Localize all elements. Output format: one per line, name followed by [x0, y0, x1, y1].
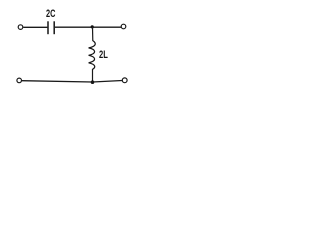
wire (node B to bottom-right terminal) — [93, 81, 123, 83]
inductor 2L coil — [89, 41, 96, 70]
node A junction dot (top) — [91, 25, 94, 28]
svg-text:2C: 2C — [46, 8, 56, 20]
capacitor 2C left plate — [47, 21, 49, 34]
svg-text:2L: 2L — [99, 49, 108, 61]
wire (bottom-left terminal to node B) — [22, 81, 93, 82]
terminal T3 (bottom-left port) — [17, 78, 22, 83]
wire (node A down to inductor) — [92, 27, 94, 41]
wire (capacitor to top-right terminal, through node A) — [55, 26, 121, 28]
node B junction dot (bottom) — [91, 80, 95, 84]
terminal T4 (bottom-right port) — [122, 78, 127, 83]
terminal T2 (top-right port) — [121, 24, 126, 29]
capacitor 2C right plate — [53, 21, 55, 34]
terminal T1 (top-left port) — [18, 25, 23, 30]
wire (top-left terminal to capacitor) — [23, 26, 47, 28]
wire (inductor to node B) — [92, 69, 94, 82]
